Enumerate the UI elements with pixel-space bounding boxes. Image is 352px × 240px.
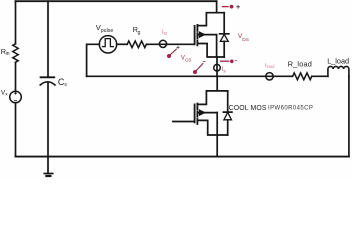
wire left branch middle bbox=[15, 62, 17, 91]
transistor Q1 channel bbox=[196, 25, 198, 45]
label R_g bbox=[133, 25, 141, 36]
wire gate loop left bbox=[87, 44, 100, 76]
svg-text:g: g bbox=[138, 30, 141, 36]
svg-text:x: x bbox=[5, 92, 8, 97]
label V_x bbox=[1, 89, 8, 96]
transistor Q1 body arrow bbox=[197, 35, 216, 57]
label I_load bbox=[265, 63, 275, 69]
transistor Q2 gate bar bbox=[194, 104, 196, 122]
resistor R_load bbox=[293, 73, 312, 80]
transistor Q2 source lead bbox=[197, 113, 227, 157]
wire bottom rail (return net) bbox=[16, 156, 349, 158]
probe terminal V_DS plus bbox=[222, 5, 240, 9]
resistor R_g bbox=[127, 41, 146, 48]
label R_in bbox=[1, 47, 10, 57]
svg-text:COOL MOS: COOL MOS bbox=[229, 105, 267, 112]
wire V_pulse to R_g bbox=[117, 43, 128, 45]
current probe I_load bbox=[266, 73, 273, 80]
svg-text:in: in bbox=[6, 51, 10, 57]
wire Q2 gate stub bbox=[173, 121, 195, 123]
label V_GS bbox=[181, 55, 192, 62]
inductor L_load bbox=[328, 66, 349, 76]
capacitor C_s bottom lead bbox=[47, 83, 49, 157]
label I_s bbox=[222, 66, 227, 74]
svg-text:s: s bbox=[64, 82, 67, 88]
probe V_GS minus bbox=[193, 62, 206, 74]
wire R_g to Q1 gate (through probe I_g) bbox=[147, 43, 195, 45]
transistor Q2 channel bbox=[196, 104, 198, 125]
svg-text:GS: GS bbox=[185, 58, 191, 63]
transistor Q1 source lead bbox=[197, 44, 224, 58]
source V_x bbox=[10, 91, 22, 103]
body diode D1 bbox=[220, 13, 229, 57]
svg-text:G: G bbox=[164, 31, 168, 36]
ground bbox=[47, 157, 49, 174]
transistor Q2 drain lead bbox=[197, 76, 227, 104]
svg-text:R_load: R_load bbox=[288, 60, 312, 69]
probe V_GS plus bbox=[167, 46, 180, 58]
label V_DS bbox=[238, 33, 249, 43]
label I_G bbox=[162, 30, 168, 36]
probe terminal V_DS minus bbox=[220, 60, 237, 64]
transistor Q1 drain lead bbox=[197, 1, 224, 25]
transistor Q2 body arrow bbox=[197, 112, 217, 114]
svg-text:load: load bbox=[267, 64, 276, 69]
transistor Q1 gate bar bbox=[194, 26, 196, 44]
current probe I_g bbox=[159, 40, 166, 47]
wire right edge bbox=[348, 76, 350, 156]
wire Q1 source to mid rail (through probe I_s) bbox=[216, 57, 218, 76]
current probe I_s bbox=[214, 64, 221, 71]
svg-text:DS: DS bbox=[242, 37, 249, 43]
capacitor C_s top lead bbox=[47, 1, 49, 76]
label V_pulse bbox=[96, 23, 114, 34]
svg-text:pulse: pulse bbox=[101, 28, 114, 34]
resistor R_in bbox=[13, 44, 18, 62]
svg-text:IPW60R045CP: IPW60R045CP bbox=[268, 106, 313, 112]
svg-text:s: s bbox=[223, 68, 226, 73]
svg-text:L_load: L_load bbox=[327, 57, 349, 66]
wire left branch lower bbox=[15, 103, 17, 157]
capacitor C_s bbox=[41, 76, 55, 78]
body diode D2 bbox=[223, 91, 232, 135]
label C_s bbox=[58, 77, 68, 88]
wire mid rail (switch node net) bbox=[87, 75, 293, 77]
wire R_load to L_load bbox=[312, 75, 328, 77]
wire left branch upper bbox=[15, 1, 17, 44]
source V_pulse bbox=[99, 36, 116, 53]
wire top rail (DC+ net) bbox=[16, 0, 217, 2]
